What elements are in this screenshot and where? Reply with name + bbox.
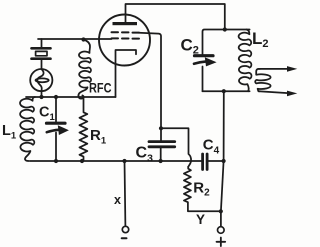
inductor L1 [20, 97, 35, 161]
svg-text:RFC: RFC [89, 80, 112, 95]
crystal Y1 lead [41, 39, 43, 47]
capacitor C3 [149, 128, 175, 161]
svg-text:C4: C4 [203, 137, 220, 157]
wire: tank top rail [203, 30, 250, 55]
svg-text:C1: C1 [39, 105, 55, 124]
tube screen grid (upper dashed) [112, 31, 140, 33]
svg-text:L2: L2 [252, 29, 269, 50]
crystal Y1 [32, 48, 51, 69]
wire: output top lead with arrow [259, 68, 289, 70]
node: R1 bottom [80, 159, 84, 163]
node: lamp to cathode bus [39, 95, 43, 99]
variable capacitor C1 lead [55, 97, 57, 122]
svg-text:Y: Y [196, 212, 205, 227]
wire: ground/cathode-return bus [30, 160, 201, 162]
resistor R2 [184, 167, 221, 212]
terminal: plus [218, 227, 225, 234]
tube cathode [116, 50, 137, 97]
node: tank top junction [223, 27, 227, 31]
plus sign [217, 238, 226, 247]
minus sign [122, 237, 127, 239]
wire: plate lead from tube top to B+ top rail [126, 4, 225, 30]
capacitor C4 [203, 154, 224, 170]
wire: tank bottom rail [203, 90, 250, 92]
tube control grid (lower dashed) [112, 37, 140, 39]
node: screen/C3/R2 junction [159, 126, 163, 130]
wire: screen grid lead exiting right [139, 33, 161, 129]
variable capacitor C1 [47, 123, 69, 161]
wire: junction to R2 with hop over bus [161, 128, 191, 167]
node: tank bottom to supply [222, 89, 226, 93]
node: RFC top junction [81, 37, 85, 41]
node: C1 top [54, 95, 58, 99]
node: negative-lead junction [122, 159, 126, 163]
svg-text:C2: C2 [181, 36, 199, 57]
svg-text:R1: R1 [90, 127, 107, 147]
node: C4 to supply line [222, 159, 226, 163]
lamp (pilot bulb) [30, 69, 52, 97]
output link coil (secondary) [255, 69, 270, 91]
wire: grid bus from crystal to tube [38, 38, 112, 40]
svg-text:R2: R2 [193, 179, 210, 198]
terminal: minus [122, 226, 128, 232]
wire: cathode bus [26, 96, 116, 98]
tube plate (anode) [113, 22, 138, 25]
resistor R1 [80, 97, 88, 161]
wire: B+ supply line [221, 91, 224, 226]
vacuum tube V1 envelope [99, 15, 150, 66]
svg-text:x: x [114, 193, 121, 207]
inductor L2 [239, 30, 252, 92]
node: C3 bottom [159, 159, 163, 163]
svg-text:L1: L1 [2, 123, 17, 142]
variable capacitor C2 [194, 56, 217, 91]
node: C1 bottom [54, 159, 58, 163]
node: R2 to supply line [219, 209, 223, 213]
RFC choke coil [78, 40, 91, 99]
wire: output bottom lead with arrow [259, 91, 289, 93]
wire: negative lead [124, 161, 127, 226]
